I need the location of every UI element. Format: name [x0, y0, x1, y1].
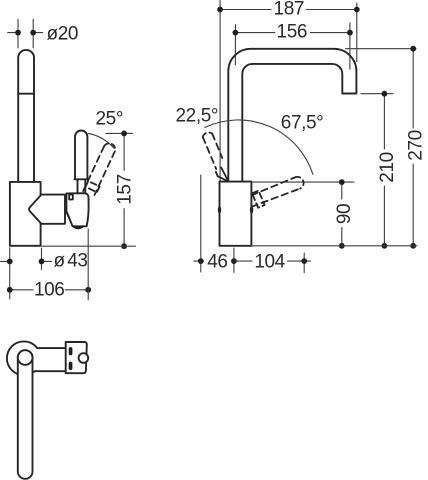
dim ø20 extension line left — [17, 19, 19, 48]
top view body bar mask — [24, 349, 65, 370]
cartridge bottom cap — [74, 226, 83, 228]
dim 104 tick right — [304, 260, 310, 262]
dim 90 dot top — [339, 179, 345, 185]
dim ø43 tick left — [1, 260, 10, 262]
dim 90 line upper — [341, 182, 343, 199]
dim ø20 tick left — [8, 32, 18, 34]
dim 187 extension left (long) — [219, 1, 221, 182]
dim ø43 tick right — [42, 260, 52, 262]
faucet body (front view) — [220, 182, 252, 246]
dim 187 line right — [307, 9, 357, 11]
dim ø20 extension line right — [32, 19, 34, 48]
dim 270 dot top — [410, 46, 416, 52]
spout tube (side view) — [18, 50, 34, 182]
svg-text:210: 210 — [377, 152, 398, 183]
dim ø20 dot right — [30, 30, 36, 36]
lever shaft (side view) — [77, 179, 79, 193]
dim 157 bottom extension — [42, 245, 136, 247]
dim 157 line lower — [123, 209, 125, 247]
lever handle solid (side view) — [75, 131, 87, 180]
dim ø43 dot right — [39, 259, 45, 265]
svg-text:157: 157 — [115, 174, 136, 205]
dim 46/104 extension mid — [233, 248, 235, 273]
dim 187 dot right — [354, 7, 360, 13]
svg-text:156: 156 — [277, 21, 308, 42]
svg-text:ø43: ø43 — [54, 250, 88, 271]
top view cartridge box — [66, 342, 87, 373]
dim 90 dot bottom — [339, 243, 345, 249]
cone to lever housing (side view) — [29, 195, 65, 224]
lever dashed 22.5deg edge right — [212, 134, 222, 158]
dim 156 line right — [310, 32, 350, 34]
dim 210 top extension — [361, 93, 393, 95]
dim 90 line lower — [341, 228, 343, 246]
dim 210 dot top — [382, 91, 388, 97]
dim 270 line upper — [412, 49, 414, 128]
dim ø43 extension right — [41, 248, 43, 269]
dim 270 top extension — [346, 48, 416, 50]
dim 106 line right — [65, 289, 88, 291]
svg-text:106: 106 — [34, 280, 65, 301]
dim 210 dot bottom — [382, 243, 388, 249]
dim 106 line left — [10, 289, 33, 291]
lever dashed right edge lower — [251, 189, 300, 207]
lever ball bump left edge — [218, 206, 221, 214]
top view lever cap inner circle — [18, 350, 33, 365]
dim 106 dot right — [85, 287, 91, 293]
dim ø43 dot left — [7, 259, 13, 265]
lever dashed 22.5deg (front) edge left — [203, 137, 216, 169]
dim 270 line lower — [412, 164, 414, 246]
svg-text:25°: 25° — [96, 109, 124, 130]
dim 106 right extension — [87, 229, 89, 300]
dim 46 tick left — [194, 260, 201, 262]
dim 156 extension left — [234, 25, 236, 65]
lever dashed 22.5deg cap — [203, 132, 212, 137]
top view body bar top edge — [37, 347, 65, 349]
25deg angle arc — [88, 133, 114, 148]
dim 46/104 extension left — [200, 175, 202, 272]
svg-text:67,5°: 67,5° — [281, 112, 324, 133]
90 top extension line through lever — [251, 181, 354, 183]
top view cartridge slot 2 — [69, 362, 73, 370]
lever dashed 25deg collar — [86, 181, 100, 192]
svg-text:187: 187 — [274, 0, 305, 20]
lever dashed right cap — [295, 177, 303, 189]
spout arch (front view) — [228, 49, 356, 182]
svg-text:22,5°: 22,5° — [176, 106, 219, 127]
top view body bar bottom edge — [36, 370, 66, 372]
dim 157 dot bottom — [121, 243, 127, 249]
dim 270 dot bottom — [410, 243, 416, 249]
top view lever capsule — [18, 350, 33, 479]
dim 46/104 extension right — [303, 253, 305, 273]
dim 46/104 dot mid — [231, 258, 237, 264]
bottom shared extension line — [251, 245, 417, 247]
svg-text:270: 270 — [406, 130, 427, 161]
dim 187 dot left — [217, 7, 223, 13]
spout tube seam line — [18, 93, 34, 95]
lever dashed 25deg edge right — [95, 151, 115, 195]
dim 104 line left — [237, 260, 252, 262]
lever 22.5deg collar solid marks — [216, 172, 229, 182]
top view base circle — [7, 341, 41, 375]
lever dashed 25deg (side view) edge left — [82, 146, 104, 194]
dim ø43 extension left — [9, 248, 11, 299]
svg-text:ø20: ø20 — [47, 23, 79, 44]
cartridge housing (side view) — [66, 193, 88, 226]
lever ball bump right edge — [250, 206, 253, 214]
top view cartridge slot 1 — [69, 347, 73, 355]
dim 156 line left — [235, 32, 274, 34]
lever dashed 25deg end cap — [104, 143, 115, 151]
dim 210 line lower — [383, 186, 385, 246]
svg-text:46: 46 — [207, 252, 227, 273]
dim 46/104 dot right — [301, 258, 307, 264]
dim ø20 dot left — [15, 30, 21, 36]
dim 210 line upper — [383, 94, 385, 149]
dim 187 line left — [220, 9, 271, 11]
dim 106 dot left — [7, 287, 13, 293]
faucet body (side view) — [10, 182, 41, 246]
svg-text:90: 90 — [334, 204, 355, 224]
lever bottom flange — [74, 178, 88, 180]
dim 156 extension right — [349, 23, 351, 69]
dim 46/104 dot left — [198, 258, 204, 264]
lever dashed right (front) edge upper — [251, 177, 295, 195]
cartridge black clip detail — [69, 195, 73, 200]
dim 156 dot right — [347, 30, 353, 36]
lever dashed right collar — [252, 191, 265, 208]
dim 157 dot top — [121, 131, 127, 137]
dim 157 top tick — [106, 132, 133, 134]
dim 187 extension right — [356, 3, 358, 62]
dim 157 line upper — [123, 133, 125, 170]
dim 104 line right — [288, 260, 305, 262]
svg-text:104: 104 — [254, 252, 285, 273]
angle arc 22.5/67.5 — [205, 120, 313, 174]
top view small circle — [79, 353, 89, 363]
dim ø20 tick right — [33, 32, 42, 34]
cartridge thin diagonal detail — [66, 211, 73, 226]
dim 156 dot left — [233, 30, 239, 36]
